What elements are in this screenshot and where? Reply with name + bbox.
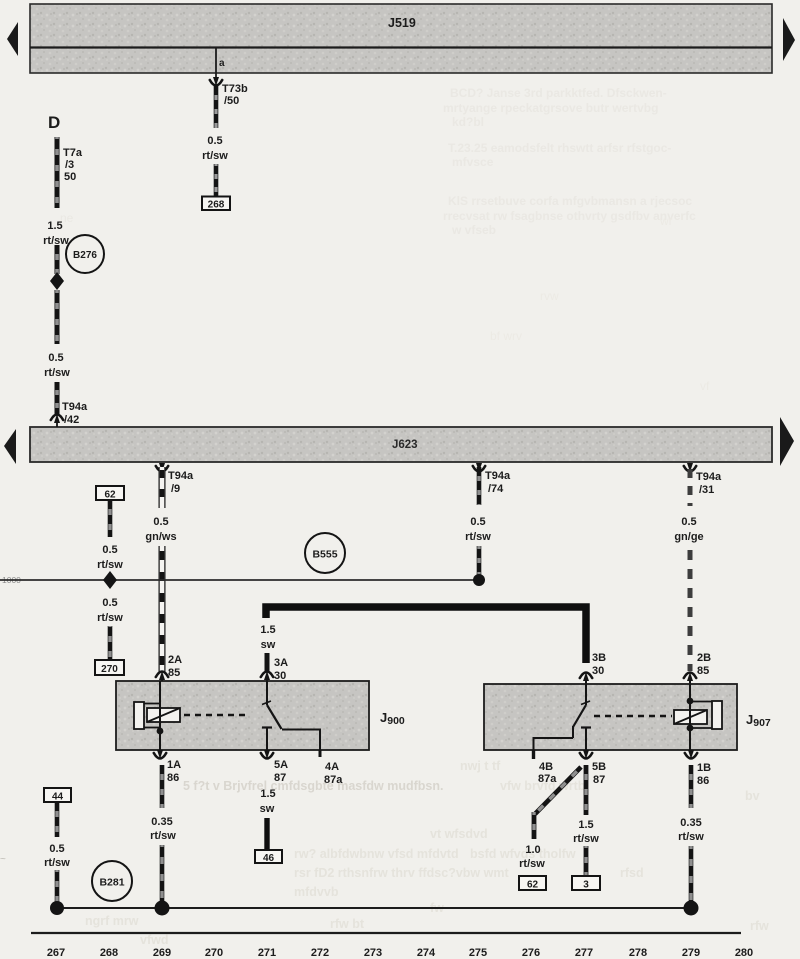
svg-text:4B: 4B (539, 761, 553, 773)
svg-text:rfsd: rfsd (620, 866, 644, 880)
svg-text:1.0: 1.0 (525, 844, 540, 856)
value label 0.5 rt/sw (202, 135, 228, 162)
svg-text:0.5: 0.5 (102, 544, 117, 556)
wire 0.5 rt/sw below terminal 44 (55, 802, 60, 837)
svg-text:5A: 5A (274, 759, 288, 771)
wire 1.5 sw to terminal 46 (264, 818, 269, 851)
J900 mechanical link (dashed) (184, 714, 250, 716)
J519 internal terminal rail line (30, 46, 772, 48)
svg-text:62: 62 (104, 490, 116, 501)
wire segment to ground rail (160, 845, 165, 903)
svg-text:5B: 5B (592, 761, 606, 773)
svg-text:a: a (219, 58, 225, 69)
wire segment to pin 3A (265, 653, 270, 672)
svg-text:3B: 3B (592, 652, 606, 664)
connector at pin 2A/85 (156, 671, 168, 682)
wire segment to ground rail (689, 846, 694, 903)
current track numbers 267-280 (47, 947, 753, 959)
svg-text:276: 276 (522, 947, 540, 959)
svg-text:0.35: 0.35 (680, 817, 701, 829)
connector T7a pin /3 terminal 50 (63, 147, 83, 183)
J900 switch common from pin 3A (262, 681, 271, 705)
svg-text:85: 85 (697, 665, 709, 677)
value label 0.5 rt/sw (44, 843, 70, 869)
svg-text:wr: wr (659, 214, 673, 228)
svg-text:T94a: T94a (62, 401, 88, 413)
J900 coil box with diagonal (147, 708, 180, 722)
wire 0.5 rt/sw upper segment (track 275) (477, 467, 482, 505)
svg-text:bf wrv: bf wrv (490, 329, 522, 343)
svg-text:0.5: 0.5 (207, 135, 222, 147)
svg-text:280: 280 (735, 947, 753, 959)
wire 1.5 rt/sw from pin 5B (584, 765, 589, 815)
value label 0.35 rt/sw (150, 816, 176, 842)
pin label 3A 30 (274, 657, 288, 682)
ground rail wire (57, 907, 691, 909)
svg-text:5 f?t v Brjvfrel cmfdsgbte mas: 5 f?t v Brjvfrel cmfdsgbte masfdw mudfbs… (183, 779, 443, 793)
wire segment to terminal 268 (214, 164, 219, 197)
svg-text:0.5: 0.5 (48, 352, 63, 364)
svg-text:gn/ws: gn/ws (145, 531, 176, 543)
connector T94a pin /9 (156, 463, 194, 495)
svg-text:vt wfsdvd: vt wfsdvd (430, 827, 488, 841)
svg-text:gn/ge: gn/ge (674, 531, 703, 543)
wire segment to terminal 270 (108, 626, 113, 661)
svg-text:KlS rrsetbuve corfa mfgvbmansn: KlS rrsetbuve corfa mfgvbmansn a rjecsoc (448, 194, 692, 208)
svg-text:275: 275 (469, 947, 487, 959)
J907 coil feed wire from pin 2B (687, 684, 694, 704)
J907 contact 87 to pin 5B (581, 728, 591, 751)
svg-text:87: 87 (593, 774, 605, 786)
current track base line (31, 932, 741, 934)
continuation arrow right (J519) (783, 18, 795, 61)
bus bar J519 (30, 4, 772, 73)
svg-text:rt/sw: rt/sw (519, 858, 545, 870)
J900 junction dot at coil bottom (157, 727, 164, 750)
J900 contact 87 to pin 5A (262, 728, 272, 751)
J907 coil box with diagonal (674, 710, 707, 724)
wire segment above splice (55, 245, 60, 274)
svg-text:273: 273 (364, 947, 382, 959)
continuation arrow right (J623) (780, 417, 794, 466)
svg-text:0.5: 0.5 (470, 516, 485, 528)
svg-text:mfvsce: mfvsce (452, 155, 494, 169)
junction splice (diamond) (50, 272, 64, 290)
value label 1.0 rt/sw (519, 844, 545, 870)
svg-text:271: 271 (258, 947, 276, 959)
connector at pin 3A/30 (261, 671, 273, 682)
svg-text:274: 274 (417, 947, 436, 959)
svg-text:0.35: 0.35 (151, 816, 172, 828)
connector at pin 1A/86 (154, 750, 181, 784)
connector at pin 3B/30 (580, 672, 592, 685)
svg-text:rt/sw: rt/sw (44, 367, 70, 379)
svg-text:1.5: 1.5 (260, 788, 275, 800)
ground junction dot (track 279) (684, 901, 699, 916)
wire gn/ge lower segment to pin 2B (688, 546, 693, 671)
svg-text:269: 269 (153, 947, 171, 959)
svg-text:1A: 1A (167, 759, 181, 771)
wire 0.5 gn/ws upper segment (159, 467, 166, 508)
pin label 3B 30 (592, 652, 606, 677)
value label 0.5 rt/sw (465, 516, 491, 543)
wire 0.5 gn/ge upper segment (688, 467, 693, 506)
svg-text:/74: /74 (488, 483, 504, 495)
svg-text:44: 44 (52, 792, 64, 803)
svg-text:~: ~ (0, 854, 6, 865)
wire 1.0 rt/sw branch from pin 5B (diagonal) (534, 767, 581, 839)
terminal box 62 (upper) (96, 486, 124, 501)
svg-text:3: 3 (583, 880, 589, 891)
svg-text:B276: B276 (73, 250, 97, 261)
splice designator B276 (66, 235, 104, 273)
J907 mechanical link (dashed) (594, 715, 672, 717)
connector T73b pin /50 (210, 77, 248, 107)
svg-text:rt/sw: rt/sw (44, 857, 70, 869)
svg-text:vfwd: vfwd (140, 933, 168, 947)
value label 1.5 sw (260, 624, 275, 651)
svg-text:rt/sw: rt/sw (97, 612, 123, 624)
svg-text:270: 270 (205, 947, 223, 959)
J900 switch blade (267, 705, 282, 729)
svg-text:T.23.25 eamodsfelt rhswtt arfs: T.23.25 eamodsfelt rhswtt arfsr rfstgoc- (448, 141, 671, 155)
svg-text:T7a: T7a (63, 147, 83, 159)
svg-text:/50: /50 (224, 95, 239, 107)
svg-text:46: 46 (263, 853, 275, 864)
value label 1.5 rt/sw (43, 220, 69, 247)
value label 0.5 gn/ws (145, 516, 176, 543)
svg-text:279: 279 (682, 947, 700, 959)
wire 1.5 rt/sw from node D (55, 137, 60, 208)
pin label 2B 85 (697, 652, 711, 677)
svg-text:T94a: T94a (485, 470, 511, 482)
svg-text:1.5: 1.5 (260, 624, 275, 636)
svg-text:278: 278 (629, 947, 647, 959)
splice designator B281 (92, 861, 132, 901)
svg-text:J623: J623 (392, 439, 418, 451)
svg-text:/9: /9 (171, 483, 180, 495)
wire gn/ws lower segment to pin 2A (159, 546, 166, 673)
wire 0.35 rt/sw from pin 1A/86 to ground (160, 765, 165, 808)
svg-text:0.5: 0.5 (153, 516, 168, 528)
wire 0.5 rt/sw (upper segment, track 270) (214, 86, 219, 128)
svg-text:rt/sw: rt/sw (202, 150, 228, 162)
relay J907 (484, 684, 771, 750)
svg-text:rt/sw: rt/sw (465, 531, 491, 543)
junction dot (B555 splice) (473, 574, 485, 586)
svg-text:1B: 1B (697, 762, 711, 774)
value label 0.5 rt/sw (97, 597, 123, 624)
wire a from J519 rail (216, 48, 225, 77)
svg-text:B555: B555 (312, 549, 337, 561)
value label 1.5 sw (pin 5A wire) (260, 788, 276, 815)
svg-text:rt/sw: rt/sw (678, 831, 704, 843)
svg-text:rt/sw: rt/sw (573, 833, 599, 845)
pin 4B/87a stub label (538, 761, 557, 785)
relay J900 (116, 681, 405, 750)
ground junction dot (track 269) (155, 901, 170, 916)
svg-text:86: 86 (167, 772, 179, 784)
wire segment to T94a/42 (55, 382, 60, 414)
svg-text:J519: J519 (388, 16, 416, 30)
svg-text:270: 270 (101, 664, 118, 675)
connector at pin 5A/87 (261, 750, 288, 784)
continuation arrow left (J623) (4, 429, 16, 464)
node D (48, 113, 60, 132)
J900 contact 87a path to pin 4A (282, 730, 320, 758)
J900 coil feed wire from pin 2A (159, 681, 161, 703)
junction splice on net 1000 (diamond) (103, 571, 117, 589)
wire 0.5 rt/sw below splice (55, 290, 60, 344)
svg-text:B281: B281 (99, 877, 124, 889)
svg-text:86: 86 (697, 775, 709, 787)
svg-text:3A: 3A (274, 657, 288, 669)
wire segment down to junction B555 (477, 546, 482, 576)
connector at pin 2B/85 (684, 672, 696, 684)
svg-text:30: 30 (592, 665, 604, 677)
svg-text:vf: vf (700, 379, 710, 393)
svg-text:0.5: 0.5 (49, 843, 64, 855)
pin 4A/87a stub label (324, 761, 343, 786)
svg-text:rvw: rvw (540, 289, 559, 303)
connector T94a pin /74 (473, 463, 511, 495)
svg-text:1.5: 1.5 (578, 819, 593, 831)
svg-text:rfw bt: rfw bt (330, 917, 365, 931)
svg-text:87a: 87a (538, 773, 557, 785)
terminal box 62 (lower) (519, 876, 546, 891)
J907 junction dot at coil bottom (687, 725, 694, 750)
svg-text:BCD? Janse 3rd parkktfed. Dfsc: BCD? Janse 3rd parkktfed. Dfsckwen- (450, 86, 667, 100)
svg-text:sw: sw (260, 803, 275, 815)
pin label 2A 85 (168, 654, 182, 679)
svg-text:87: 87 (274, 772, 286, 784)
wire 0.5 rt/sw below terminal 62 (108, 500, 113, 537)
continuation arrow left (J519) (7, 22, 18, 56)
splice designator B555 (305, 533, 345, 573)
connector T94a pin /31 (684, 463, 722, 496)
wire 0.35 rt/sw from pin 1B/86 to ground (689, 765, 694, 808)
bus bar J623 (30, 427, 772, 462)
svg-text:272: 272 (311, 947, 329, 959)
svg-text:kd?bl: kd?bl (452, 115, 484, 129)
svg-text:50: 50 (64, 171, 76, 183)
J907 switch common from pin 3B (581, 684, 590, 705)
svg-text:T73b: T73b (222, 83, 248, 95)
value label 0.5 gn/ge (674, 516, 703, 543)
svg-text:4A: 4A (325, 761, 339, 773)
svg-text:85: 85 (168, 667, 180, 679)
terminal box 268 (202, 197, 230, 211)
connector at pin 1B/86 (685, 750, 711, 787)
svg-text:rt/sw: rt/sw (97, 559, 123, 571)
terminal box 44 (44, 788, 71, 803)
svg-text:rfw: rfw (750, 919, 769, 933)
svg-text:D: D (48, 113, 60, 132)
svg-text:0.5: 0.5 (681, 516, 696, 528)
svg-text:62: 62 (527, 880, 539, 891)
J907 contact 87a path to pin 4B (534, 726, 574, 759)
terminal box 3 (572, 876, 600, 891)
svg-text:w vfseb: w vfseb (451, 223, 496, 237)
svg-text:T94a: T94a (168, 470, 194, 482)
wire segment to ground rail (55, 870, 60, 903)
svg-text:2A: 2A (168, 654, 182, 666)
svg-text:/42: /42 (64, 414, 79, 426)
svg-text:rw? albfdwbnw vfsd mfdvtd: rw? albfdwbnw vfsd mfdvtd (294, 847, 459, 861)
svg-text:268: 268 (100, 947, 118, 959)
svg-text:sw: sw (261, 639, 276, 651)
wire segment to terminal 3 (584, 846, 589, 876)
svg-text:267: 267 (47, 947, 65, 959)
wire net label 1000 (2, 575, 21, 585)
terminal box 46 (255, 850, 282, 864)
terminal box 270 (95, 660, 124, 675)
svg-text:T94a: T94a (696, 471, 722, 483)
J900 relay winding element (134, 702, 160, 731)
svg-text:2B: 2B (697, 652, 711, 664)
value label 0.5 rt/sw (44, 352, 70, 379)
svg-text:ngrf mrw: ngrf mrw (85, 914, 139, 928)
svg-text:268: 268 (208, 200, 225, 211)
wire 1.5 sw bus (thick) (266, 607, 586, 663)
svg-text:rrecvsat rw fsagbnse othvrty g: rrecvsat rw fsagbnse othvrty gsdfbv anve… (443, 209, 696, 223)
svg-text:rsr fD2 rthsnfrw thrv ffdsc?vb: rsr fD2 rthsnfrw thrv ffdsc?vbw wmt (294, 866, 509, 880)
value label 0.5 rt/sw (97, 544, 123, 571)
svg-text:nwj t tf: nwj t tf (460, 759, 501, 773)
svg-text:mrtyange rpeckatgrsove butr we: mrtyange rpeckatgrsove butr wertvbg (443, 101, 658, 115)
connector at pin 5B/87 (580, 750, 606, 786)
svg-text:0.5: 0.5 (102, 597, 117, 609)
ground junction dot (track 267) (50, 901, 64, 915)
svg-text:rt/sw: rt/sw (150, 830, 176, 842)
svg-text:mfdvvb: mfdvvb (294, 885, 339, 899)
svg-text:277: 277 (575, 947, 593, 959)
svg-text:87a: 87a (324, 774, 343, 786)
svg-text:bv: bv (745, 789, 760, 803)
svg-text:/31: /31 (699, 484, 714, 496)
svg-text:1.5: 1.5 (47, 220, 62, 232)
value label 0.35 rt/sw (678, 817, 704, 843)
wire net 1000 (horizontal) (0, 579, 479, 581)
value label 1.5 rt/sw (573, 819, 599, 845)
connector T94a pin /42 (51, 401, 88, 427)
J907 switch blade (573, 705, 586, 727)
svg-text:/3: /3 (65, 159, 74, 171)
J907 relay winding element (690, 701, 722, 729)
